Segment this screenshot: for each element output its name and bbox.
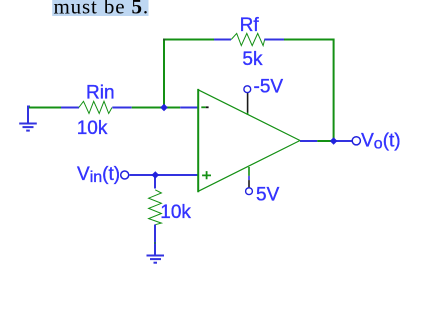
svg-text:10k: 10k	[160, 202, 191, 223]
svg-text:Rf: Rf	[240, 15, 260, 36]
svg-text:must be 5.: must be 5.	[54, 0, 149, 18]
svg-text:10k: 10k	[77, 118, 108, 139]
svg-text:-5V: -5V	[254, 76, 284, 97]
svg-text:5k: 5k	[242, 49, 263, 70]
svg-text:5V: 5V	[256, 185, 280, 206]
svg-text:Rin: Rin	[86, 83, 115, 104]
